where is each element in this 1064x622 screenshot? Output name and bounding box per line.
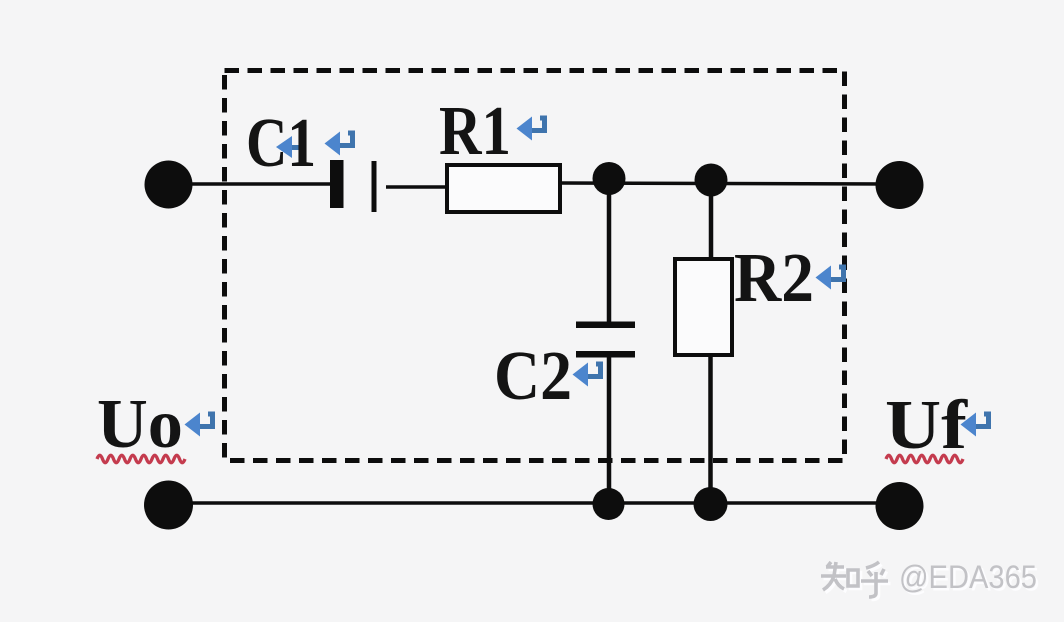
svg-text:R1: R1 (439, 93, 511, 170)
svg-text:C2: C2 (494, 338, 572, 415)
svg-text:Uf: Uf (885, 387, 968, 464)
svg-text:Uo: Uo (97, 386, 183, 463)
svg-text:C1: C1 (246, 105, 316, 182)
svg-text:R2: R2 (734, 240, 814, 317)
